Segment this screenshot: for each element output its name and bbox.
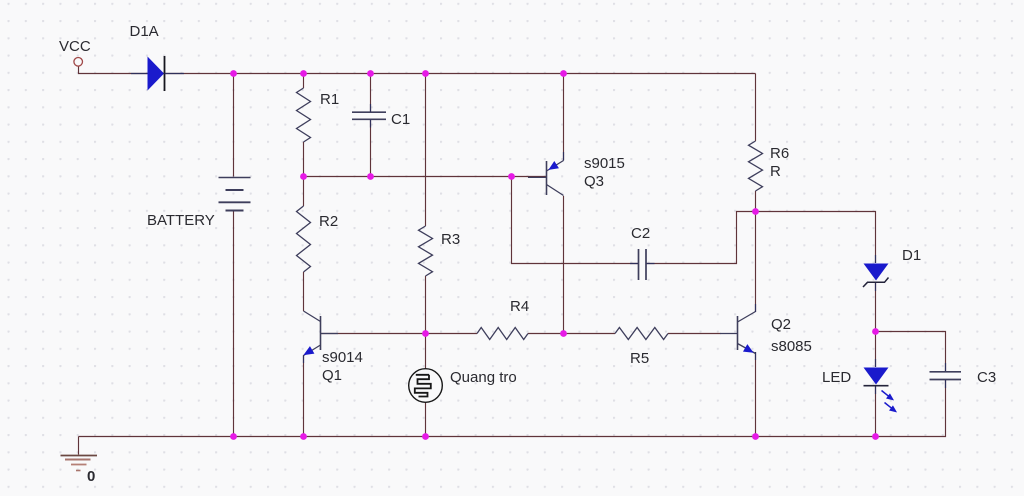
wire R6 top drop (755, 74, 757, 142)
junction top rail at Q3 (560, 70, 567, 77)
transistor Q3 (528, 152, 625, 196)
wire R6 bottom lead (755, 191, 757, 212)
svg-text:s9014: s9014 (322, 349, 363, 366)
svg-text:s8085: s8085 (771, 338, 812, 355)
capacitor C3 (930, 363, 997, 388)
junction top rail at battery (230, 70, 237, 77)
resistor R1 (297, 88, 340, 142)
wire Q2 emitter to bottom rail (755, 352, 757, 437)
capacitor C1 (352, 104, 410, 128)
wire C2 right to R6 node (647, 212, 756, 264)
wire R2 bottom to Q1 collector (303, 272, 305, 311)
resistor R6 (749, 141, 790, 191)
svg-text:R: R (770, 163, 781, 180)
junction rail2 at node B (508, 173, 515, 180)
wire LDR bottom lead (425, 403, 427, 437)
wire battery vertical bottom (233, 211, 235, 437)
resistor R3 (419, 226, 461, 276)
wire D1 to LED (875, 283, 877, 367)
junction bottom rail at Q2 emitter (752, 433, 759, 440)
wire C1 bottom lead (370, 120, 372, 177)
svg-text:0: 0 (87, 468, 95, 485)
wire R3 bottom lead (425, 276, 427, 334)
junction top rail at R1 (300, 70, 307, 77)
svg-text:Q1: Q1 (322, 367, 342, 384)
wire rail2 (304, 176, 547, 178)
svg-text:VCC: VCC (59, 38, 91, 55)
wire R3 column top (425, 74, 427, 227)
svg-text:C2: C2 (631, 225, 650, 242)
ground (61, 456, 98, 486)
svg-text:BATTERY: BATTERY (147, 212, 215, 229)
resistor R4 (477, 298, 529, 340)
svg-text:D1A: D1A (130, 23, 159, 40)
wire Q1 emitter to bottom rail (303, 355, 305, 437)
svg-text:R4: R4 (510, 298, 529, 315)
svg-text:R5: R5 (630, 350, 649, 367)
photoresistor Quang tro (409, 369, 517, 403)
transistor Q2 (720, 304, 812, 360)
junction rail2 at R1/R2 (300, 173, 307, 180)
wire R1 bottom lead (303, 142, 305, 177)
wire Q3 collector down (563, 196, 565, 334)
svg-text:Quang tro: Quang tro (450, 369, 517, 386)
svg-text:C3: C3 (977, 369, 996, 386)
junction mid at R3 (422, 330, 429, 337)
zener diode D1 (863, 247, 921, 291)
wire ground riser (78, 437, 80, 455)
wire bottom rail (79, 436, 876, 438)
wire C3 branch (876, 332, 946, 372)
wire R1 top lead (303, 74, 305, 89)
wire Q3 emitter column (563, 74, 565, 161)
svg-text:R1: R1 (320, 91, 339, 108)
svg-text:C1: C1 (391, 111, 410, 128)
wire mid base line (321, 333, 721, 335)
junction bottom rail at Q1 emitter (300, 433, 307, 440)
junction rail2 at C1 (367, 173, 374, 180)
junction mid at Q3 collector (560, 330, 567, 337)
wire R2 top lead (303, 177, 305, 207)
junction top rail at R3 column (422, 70, 429, 77)
svg-text:R6: R6 (770, 145, 789, 162)
svg-text:s9015: s9015 (584, 155, 625, 172)
wire right branch to D1 (756, 212, 876, 264)
wire top rail (79, 67, 756, 74)
svg-text:R2: R2 (319, 213, 338, 230)
junction R6 bottom node (752, 208, 759, 215)
power terminal VCC (59, 38, 91, 66)
junction bottom rail at battery (230, 433, 237, 440)
junction D1 cathode node (872, 328, 879, 335)
wire C1 top lead (370, 74, 372, 113)
svg-text:LED: LED (822, 369, 851, 386)
svg-text:Q2: Q2 (771, 316, 791, 333)
junction bottom rail at LDR (422, 433, 429, 440)
wire Q2 collector (755, 212, 757, 313)
resistor R2 (297, 206, 339, 272)
capacitor C2 (630, 225, 655, 280)
diode D1A (130, 23, 185, 91)
wire LED to bottom rail (875, 386, 877, 437)
wire C3 bottom (876, 380, 946, 437)
diode LED (822, 359, 896, 412)
svg-text:D1: D1 (902, 247, 921, 264)
junction top rail at C1 (367, 70, 374, 77)
resistor R5 (615, 328, 668, 368)
wire battery vertical top (233, 74, 235, 177)
battery BATTERY (147, 178, 251, 230)
junction bottom rail at LED (872, 433, 879, 440)
svg-text:Q3: Q3 (584, 173, 604, 190)
transistor Q1 (304, 311, 363, 384)
svg-text:R3: R3 (441, 231, 460, 248)
wire LDR top lead (425, 334, 427, 369)
wire node B drop from rail2 to C2 (512, 177, 639, 264)
